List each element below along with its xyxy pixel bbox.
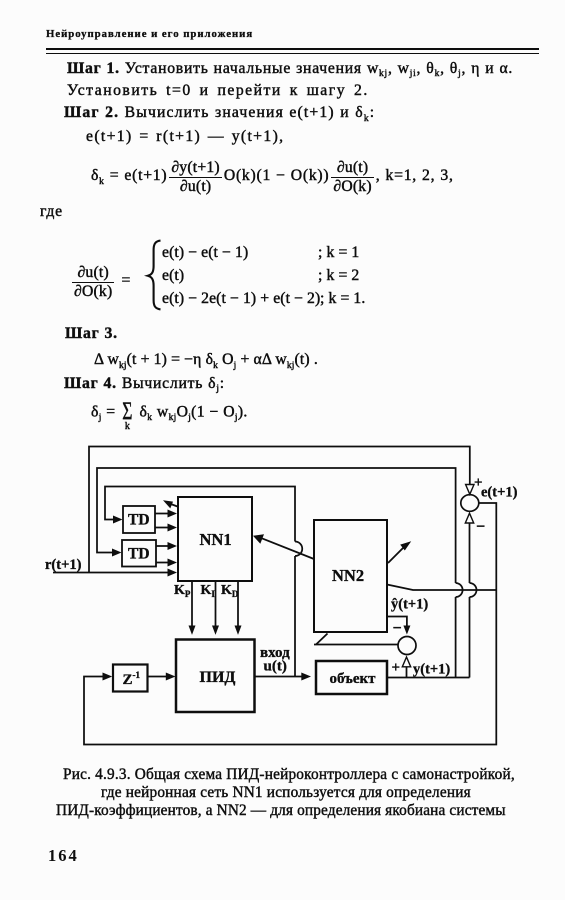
svg-text:−: −	[476, 519, 485, 536]
svg-text:KI: KI	[201, 583, 216, 599]
svg-text:−: −	[393, 620, 402, 637]
svg-text:r(t+1): r(t+1)	[45, 557, 82, 573]
svg-text:объект: объект	[330, 671, 377, 687]
svg-text:Z-1: Z-1	[123, 670, 141, 688]
svg-text:TD: TD	[128, 546, 150, 563]
svg-text:y(t+1): y(t+1)	[413, 662, 450, 678]
svg-text:+: +	[474, 475, 483, 491]
svg-text:NN2: NN2	[332, 566, 364, 585]
svg-text:NN1: NN1	[200, 530, 232, 549]
svg-text:ŷ(t+1): ŷ(t+1)	[391, 597, 428, 613]
svg-text:u(t): u(t)	[264, 659, 287, 675]
svg-text:KP: KP	[174, 583, 191, 599]
svg-text:ПИД: ПИД	[200, 669, 236, 686]
svg-text:KD: KD	[221, 583, 239, 599]
svg-text:TD: TD	[128, 512, 150, 529]
svg-text:+: +	[392, 660, 401, 676]
svg-text:e(t+1): e(t+1)	[481, 485, 518, 501]
